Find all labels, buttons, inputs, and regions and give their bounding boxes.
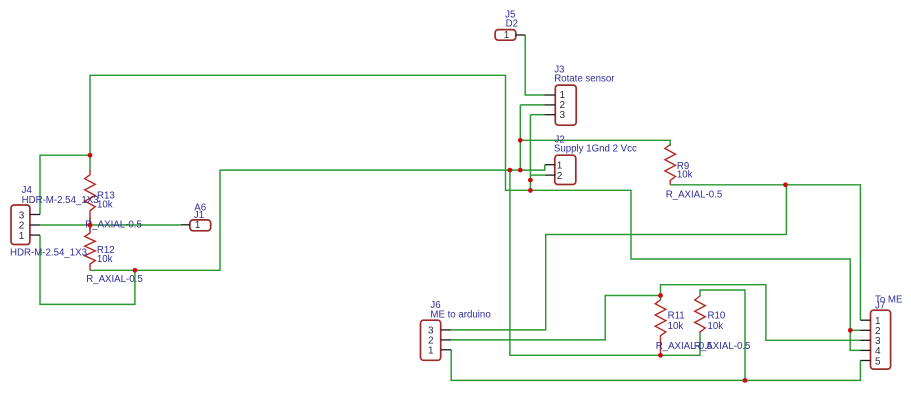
wire R12 bottom to J2 pin1	[90, 165, 545, 271]
connector J2	[545, 155, 576, 184]
connector J6	[421, 320, 452, 360]
resistor R10	[695, 296, 706, 333]
junction node R12 bottom / J4.1	[133, 268, 138, 273]
svg-text:10k: 10k	[668, 321, 684, 332]
svg-text:HDR-M-2.54_1X3: HDR-M-2.54_1X3	[10, 248, 87, 259]
svg-text:10k: 10k	[97, 199, 113, 210]
wire R11 top to J7 pin 3	[661, 285, 861, 341]
wire R9 bottom to J7 pin 1	[670, 185, 860, 320]
svg-text:Supply 1Gnd 2 Vcc: Supply 1Gnd 2 Vcc	[554, 143, 637, 154]
wire J4.2 to J1	[40, 224, 181, 226]
wire J3.3 vertical	[529, 115, 531, 191]
svg-text:R_AXIAL-0.5: R_AXIAL-0.5	[694, 341, 751, 352]
wire J4.1 loop	[40, 235, 135, 304]
svg-text:1: 1	[504, 30, 510, 41]
svg-text:R_AXIAL-0.5: R_AXIAL-0.5	[85, 220, 142, 231]
svg-text:HDR-M-2.54_1X3: HDR-M-2.54_1X3	[22, 195, 99, 206]
junction node to resistors bottom	[508, 168, 513, 173]
svg-text:R_AXIAL-0.5: R_AXIAL-0.5	[666, 189, 723, 200]
wire J4.3 to R13 top	[40, 155, 90, 214]
svg-text:1: 1	[557, 160, 563, 171]
junction node R9 wire start	[518, 138, 523, 143]
junction node R10 top drop	[743, 378, 748, 383]
wire J3.3 horizontal	[530, 114, 544, 116]
connector J5 (D2)	[495, 30, 525, 41]
wire node to R9 top	[520, 140, 670, 146]
wire top bus from R13 node to J7 pins 2/4	[90, 75, 860, 350]
wire J6.2 to R11 top	[451, 296, 660, 340]
wire R13 top lead	[89, 155, 91, 170]
svg-text:2: 2	[557, 171, 563, 182]
resistor R9	[665, 145, 676, 185]
junction node J3.3 bottom	[528, 188, 533, 193]
connector J7	[860, 310, 890, 369]
svg-text:J7: J7	[875, 301, 885, 312]
svg-text:R_AXIAL-0.5: R_AXIAL-0.5	[86, 274, 143, 285]
svg-text:5: 5	[875, 356, 881, 367]
junction node R13/R12/J4.2	[88, 223, 93, 228]
wire J2.2 horizontal	[530, 174, 545, 176]
svg-text:D2: D2	[506, 19, 518, 30]
svg-text:10k: 10k	[677, 170, 693, 181]
wire J6.3 to R9 bottom node	[451, 185, 786, 330]
svg-text:3: 3	[560, 110, 566, 121]
svg-text:10k: 10k	[97, 254, 113, 265]
wire J5 to J3.1	[525, 35, 544, 95]
junction node R11 top	[658, 293, 663, 298]
svg-text:10k: 10k	[708, 321, 724, 332]
svg-text:1: 1	[428, 346, 434, 357]
wire J2.1 bend	[544, 165, 546, 170]
wire R10 top to bottom bus	[700, 290, 745, 380]
wire J3.2 horizontal	[520, 104, 544, 106]
junction node J7 pin2	[848, 328, 853, 333]
junction node J3.2 bottom	[518, 168, 523, 173]
wire node to R11/R10 bottoms	[510, 170, 700, 355]
wire stub to J7 pin 2	[850, 329, 860, 331]
wire bottom bus J6.1 to J7 pin 5	[451, 350, 860, 381]
connector J4	[11, 205, 40, 245]
connector J1 (A6)	[181, 220, 211, 231]
wire R11 top lead	[660, 296, 662, 301]
resistor R11	[655, 300, 666, 356]
svg-text:Rotate sensor: Rotate sensor	[554, 74, 615, 85]
svg-text:1: 1	[19, 231, 25, 242]
svg-text:J1: J1	[194, 210, 204, 221]
svg-text:1: 1	[195, 220, 201, 231]
connector J3	[544, 85, 576, 125]
junction node J2.2 branch	[528, 178, 533, 183]
resistor R13	[85, 170, 96, 223]
svg-text:ME to arduino: ME to arduino	[430, 309, 490, 320]
resistor R12	[85, 226, 96, 270]
junction node R9 bottom	[783, 182, 788, 187]
junction node R13 top	[88, 153, 93, 158]
junction node R11 bottom	[658, 353, 663, 358]
wire J3.2 vertical	[519, 105, 521, 170]
wire R13 bottom lead to node	[89, 217, 91, 232]
